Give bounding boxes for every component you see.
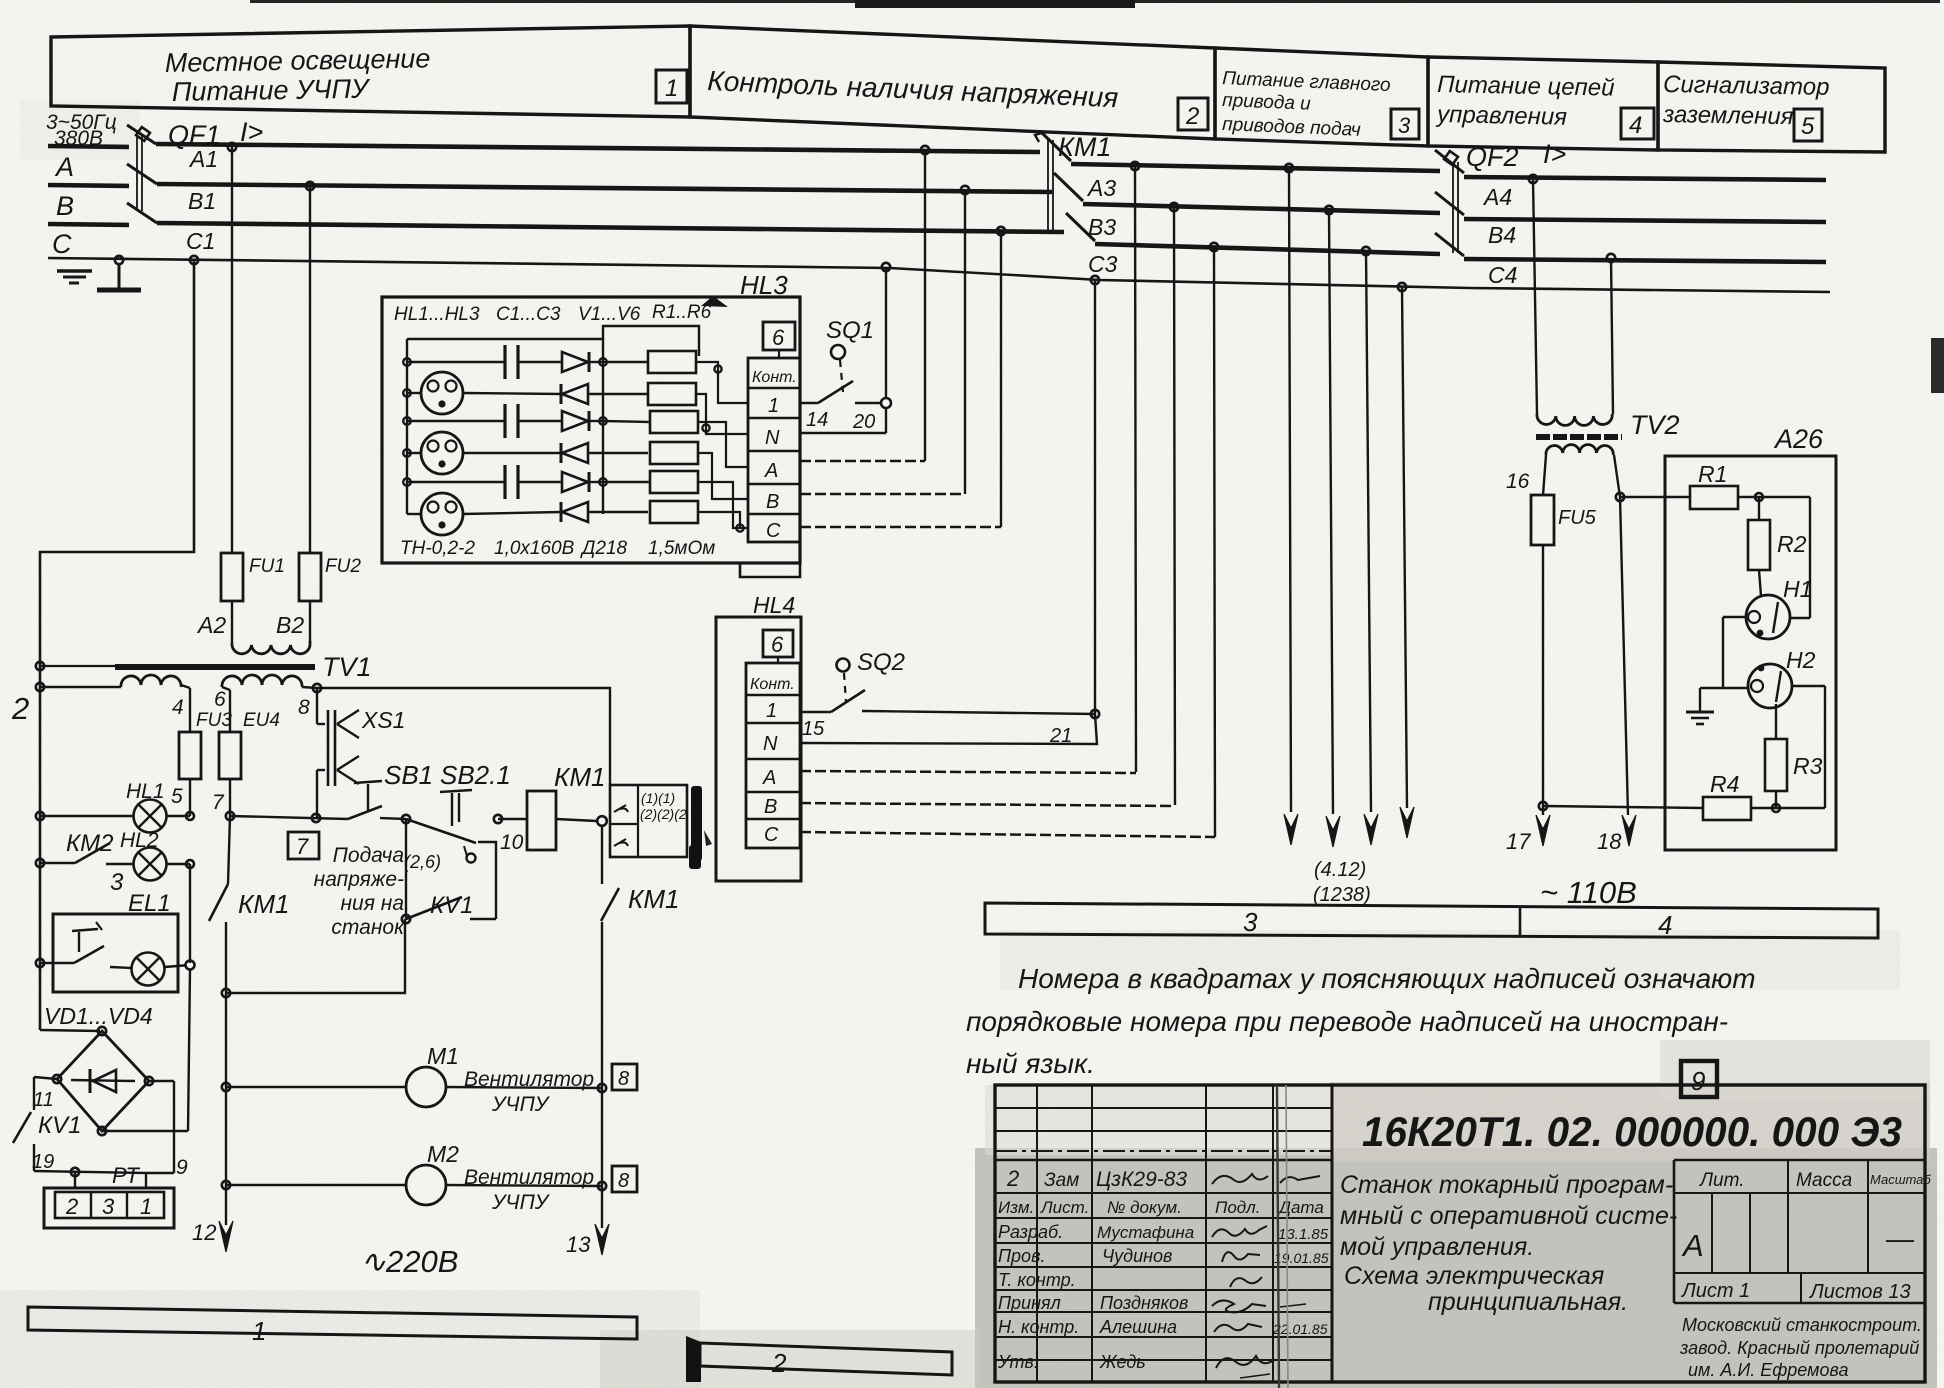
svg-text:Зам: Зам [1044,1170,1079,1191]
svg-text:FU3: FU3 [196,710,232,731]
wire A1 [156,144,1040,172]
arrow 13 [566,1224,609,1257]
svg-text:HL3: HL3 [740,270,788,300]
svg-text:Схема электрическая: Схема электрическая [1344,1262,1604,1290]
resistor R3 [603,411,698,433]
svg-text:Жедь: Жедь [1099,1352,1146,1372]
svg-text:привода и: привода и [1222,90,1312,115]
svg-text:3: 3 [110,869,124,896]
header box 3 Питание главного привода и приводов подач [1215,48,1428,146]
node B1 tap to HL3 pin B [961,186,969,494]
svg-text:ЦзК29-83: ЦзК29-83 [1096,1168,1187,1191]
node PE to left rail [190,256,198,264]
capacitor C1 [407,345,562,379]
svg-text:РТ: РТ [112,1163,140,1188]
svg-text:В3: В3 [1088,214,1116,240]
svg-text:21: 21 [1049,725,1072,747]
HL3 mesh wires to connector [696,362,748,532]
svg-text:Местное освещение: Местное освещение [165,43,431,78]
svg-text:завод. Красный пролетарий: завод. Красный пролетарий [1679,1338,1919,1358]
svg-text:13: 13 [566,1232,591,1257]
label Вентилятор УЧПУ M2 [464,1166,594,1214]
svg-text:N: N [763,733,778,755]
wire drop 4 to power section arrow [1398,283,1414,838]
svg-text:C1: C1 [186,228,215,254]
svg-text:1,0х160В: 1,0х160В [494,538,575,559]
title row Разраб [998,1222,1329,1243]
fuse FU5 [1531,455,1597,806]
diode V6 [561,502,648,522]
wire H1 right to R1 rail [1790,497,1810,618]
svg-text:Масштаб: Масштаб [1870,1172,1931,1187]
diode V4 [561,443,648,463]
HL3 top wire [407,326,699,356]
lamp row wires [407,393,562,514]
EL1 switch [40,922,104,963]
wire phase C incoming [48,224,129,225]
wire C1 [157,223,1064,254]
svg-text:8: 8 [618,1170,629,1192]
contactor KM1 main contacts [1035,132,1111,241]
svg-text:6: 6 [771,632,784,657]
svg-text:(4.12): (4.12) [1314,859,1366,881]
svg-text:QF2: QF2 [1466,142,1519,172]
svg-text:ния на: ния на [340,892,404,915]
wire HL4 pin B to B3 [800,803,1175,806]
svg-text:22.01.85: 22.01.85 [1272,1321,1328,1337]
svg-text:Д218: Д218 [580,538,628,559]
wire A4 [1464,177,1826,210]
svg-text:А4: А4 [1482,184,1512,210]
resistor R4 of A26 [1543,771,1825,820]
wire B4 [1464,219,1826,248]
title row Утв [997,1352,1274,1378]
svg-text:2: 2 [1185,103,1199,130]
label square 8 M2 [612,1166,637,1192]
svg-text:7: 7 [296,834,309,859]
wire phase B incoming [48,185,129,186]
svg-text:А: А [762,767,776,789]
HL3 connector outline protrusion [740,563,800,577]
scan top edge artifact [250,0,1944,393]
svg-text:КV1: КV1 [430,892,474,919]
title row Н контр [998,1317,1328,1337]
svg-text:Подача: Подача [333,844,404,867]
lamp H1 neon [1746,576,1812,639]
svg-text:A1: A1 [188,146,218,172]
svg-text:Лит.: Лит. [1698,1170,1745,1191]
svg-text:(1)(1): (1)(1) [641,790,675,806]
wire SB2.1 to coil [494,815,527,823]
svg-text:КМ1: КМ1 [1058,132,1111,162]
transformer TV2 secondary [1506,445,1613,493]
svg-text:2: 2 [65,1194,78,1219]
svg-text:Поздняков: Поздняков [1100,1293,1188,1313]
svg-text:принципиальная.: принципиальная. [1428,1288,1628,1316]
svg-text:Разраб.: Разраб. [998,1222,1063,1242]
transformer TV1 primary winding [232,641,310,654]
title doc number [1362,1108,1902,1155]
label square 7 [288,832,319,859]
HL4 connector table [746,663,800,848]
svg-text:2: 2 [11,691,29,726]
transformer TV1 core [115,652,372,682]
svg-text:В2: В2 [276,612,304,638]
wire SB1 to KV1 node [380,815,410,823]
header box 2 Контроль наличия напряжения [690,26,1215,139]
svg-text:C: C [52,229,72,259]
earth symbol A26 [1686,712,1714,724]
svg-text:SB1: SB1 [384,760,433,790]
wire A3 [1071,164,1440,201]
wire HL4 pin C to C3 [800,832,1215,837]
svg-text:Питание цепей: Питание цепей [1437,71,1615,102]
svg-text:Листов 13: Листов 13 [1808,1281,1911,1303]
svg-text:Лист.: Лист. [1040,1198,1089,1217]
push button SB1 [348,760,433,819]
svg-text:Мустафина: Мустафина [1097,1223,1194,1242]
HL3 diode output bus [599,339,607,514]
header label square 4 [1621,108,1654,139]
svg-text:SQ2: SQ2 [857,649,905,676]
note text about square numbers [966,963,1756,1079]
wire HL3 pin N to SQ1 post [800,432,886,434]
lamp H2 neon [1748,647,1816,708]
phase labels A B C [52,152,74,259]
svg-text:Вентилятор: Вентилятор [464,1166,594,1189]
title description [1340,1171,1677,1316]
svg-text:С1...С3: С1...С3 [496,304,561,325]
motor M1 fan [222,1043,606,1107]
svg-text:~ 110В: ~ 110В [1540,875,1637,910]
node C3 tap to HL4 pin C [1210,243,1218,837]
svg-text:ХS1: ХS1 [361,707,405,733]
svg-text:им. А.И. Ефремова: им. А.И. Ефремова [1688,1360,1848,1380]
svg-text:А: А [764,460,778,482]
paper fold line [1277,1085,1288,1388]
svg-text:мный с оперативной систе-: мный с оперативной систе- [1340,1202,1677,1230]
svg-text:19: 19 [32,1151,54,1173]
svg-text:8: 8 [298,696,310,719]
lamp HL2 [106,829,194,896]
wire TV1 terminal 8 node [302,684,610,785]
svg-text:1: 1 [665,75,678,102]
svg-text:ТV2: ТV2 [1630,410,1680,440]
block A26 box [1665,424,1836,850]
svg-text:FU5: FU5 [1558,507,1597,529]
svg-text:Н2: Н2 [1786,647,1816,673]
svg-text:С3: С3 [1088,251,1118,277]
svg-text:HL1...HL3: HL1...HL3 [394,304,480,325]
label 220V [360,1244,458,1279]
motor M2 fan [222,1141,606,1205]
svg-text:Дата: Дата [1277,1198,1324,1217]
ground post stub [97,256,141,290]
contact KM2 [40,830,113,863]
svg-text:R2: R2 [1777,531,1807,557]
svg-text:3: 3 [102,1194,115,1219]
fuse FU4 [219,687,280,816]
svg-text:N: N [765,427,780,449]
label (4.12) (1238) [1313,859,1371,906]
svg-text:В: В [764,796,777,818]
svg-text:Питание УЧПУ: Питание УЧПУ [172,74,372,107]
resistor R5 [603,471,698,493]
transformer TV2 primary [1529,175,1615,426]
resistor R2 [648,383,696,405]
svg-text:М2: М2 [427,1141,459,1167]
label 7 [212,791,225,814]
svg-text:9: 9 [176,1156,188,1179]
HL3 left feed bus [403,339,411,514]
luminaire EL1 box [53,890,178,992]
node A3 tap to HL4 pin A [1131,162,1139,772]
svg-text:1: 1 [768,395,779,417]
svg-text:11: 11 [33,1089,54,1111]
svg-text:А2: А2 [196,612,226,638]
supply labels 3~50Гц 380В [46,111,117,150]
svg-text:—: — [1885,1223,1915,1254]
capacitor C2 [407,404,562,438]
svg-text:ный язык.: ный язык. [966,1048,1095,1079]
title revision row handwritten [1006,1166,1320,1191]
svg-text:4: 4 [1629,112,1642,139]
svg-text:М1: М1 [427,1043,459,1069]
wire H2 left and ground [1700,688,1748,712]
svg-text:(2)(2)(2: (2)(2)(2 [640,806,687,822]
svg-text:Московский станкостроит.: Московский станкостроит. [1682,1315,1922,1335]
svg-text:17: 17 [1506,829,1531,854]
svg-text:9: 9 [1691,1066,1705,1096]
header label square 3 [1391,109,1419,139]
svg-text:Сигнализатор: Сигнализатор [1663,71,1830,101]
thermal contact PT box [610,785,687,857]
numbered bar 3 and 4 [985,903,1878,940]
EL1 lamp [110,953,195,986]
svg-text:А26: А26 [1773,424,1824,454]
diode V5 [562,472,603,492]
svg-text:13.1.85: 13.1.85 [1278,1226,1329,1243]
svg-text:ЕL1: ЕL1 [128,890,171,917]
svg-text:Лист 1: Лист 1 [1680,1280,1750,1302]
svg-text:3: 3 [1243,907,1258,937]
connector XS1 [317,688,405,818]
wire 21 SQ2 to PE drop [800,710,1099,747]
svg-text:4: 4 [172,696,184,719]
wire bridge right to node 9 [145,1077,188,1188]
break button SB2.1 [404,760,524,872]
header box 4 Питание цепей управления [1428,57,1658,150]
HL3 connector table [748,358,800,542]
svg-text:А: А [1681,1228,1704,1263]
earth symbol left [57,271,92,283]
lamp HL2 neon [421,432,463,474]
title row Т контр [998,1270,1262,1290]
wire HL4 pin A to A3 [800,771,1136,773]
svg-text:R4: R4 [1710,771,1739,797]
wire rail to bridge top [40,1027,106,1035]
wire C3 [1088,244,1440,277]
transformer TV1 secondary II [214,675,310,719]
svg-text:ТV1: ТV1 [322,652,372,682]
transformer TV1 secondary I [40,675,184,719]
svg-text:16: 16 [1506,470,1530,493]
wire 17 drop [1506,802,1550,854]
wire 18 drop [1597,455,1636,854]
svg-text:КМ1: КМ1 [628,884,679,914]
label Вентилятор УЧПУ M1 [464,1068,594,1116]
contact KM1 aux right [601,826,679,1228]
svg-text:УЧПУ: УЧПУ [491,1093,551,1116]
title row Пров [998,1246,1329,1266]
title right grid [1674,1160,1931,1303]
svg-text:5: 5 [1801,113,1815,140]
diode V1 [562,352,603,372]
svg-text:Изм.: Изм. [998,1198,1034,1217]
svg-text:Принял: Принял [998,1293,1061,1313]
svg-text:7: 7 [212,791,225,814]
svg-text:С: С [766,520,781,542]
svg-text:19.01.85: 19.01.85 [1274,1250,1329,1266]
svg-text:12: 12 [192,1220,216,1245]
label square 9 [1681,1061,1717,1097]
svg-text:FU1: FU1 [249,556,285,577]
header box 5 Сигнализатор заземления [1658,62,1885,152]
svg-text:УЧПУ: УЧПУ [491,1191,551,1214]
svg-text:С4: С4 [1488,262,1517,288]
arrow 12 [192,1220,233,1252]
svg-text:ТН-0,2-2: ТН-0,2-2 [400,538,475,559]
circuit breaker QF1 [127,117,263,223]
svg-text:Подл.: Подл. [1215,1198,1260,1217]
thermal relay PT terminal box [44,1163,174,1228]
svg-text:I>: I> [1543,139,1566,169]
fuse FU3 [179,685,232,816]
contact KM1 aux left [209,816,289,1225]
rectifier bridge VD1-VD4 [57,1031,149,1131]
svg-text:Утв.: Утв. [997,1352,1039,1372]
svg-text:3: 3 [1398,113,1411,138]
svg-text:14: 14 [806,409,828,431]
fuse FU1 [221,553,285,643]
svg-text:порядковые номера при пере: порядковые номера при переводе надписей … [966,1006,1728,1037]
svg-text:станок: станок [331,916,405,939]
svg-text:6: 6 [772,325,785,350]
svg-text:15: 15 [802,718,825,740]
label HL3 [701,270,788,307]
svg-text:заземления: заземления [1662,101,1794,130]
svg-text:Н. контр.: Н. контр. [998,1317,1079,1337]
wire phase A incoming [48,146,129,147]
svg-text:КV1: КV1 [38,1112,82,1139]
title factory [1679,1315,1922,1380]
HL4 label square 6 [763,630,793,663]
wire B1 [157,184,1052,214]
svg-text:Н1: Н1 [1783,576,1812,602]
diode V2 [561,384,648,404]
svg-text:B1: B1 [188,188,216,214]
wire drop 3 to power section arrow [1362,247,1378,845]
svg-text:VD1...VD4: VD1...VD4 [44,1003,153,1029]
svg-text:V1...V6: V1...V6 [578,304,641,325]
resistor R1 of A26 [1620,461,1810,509]
wire C4 [1464,259,1826,288]
svg-text:1,5мОм: 1,5мОм [648,538,715,559]
label A2 B2 [196,612,304,638]
block HL4 box [716,592,801,881]
svg-text:HL1: HL1 [126,780,165,803]
node PE tap to SQ1 [882,263,890,433]
svg-text:Номера в квадратах у поясн: Номера в квадратах у поясняющих надписей… [1018,963,1756,994]
node C1 tap to HL3 pin C [997,227,1005,527]
wire HL3 pin A to A1 [800,460,925,463]
wire rail to core [40,665,115,667]
svg-text:напряже-: напряже- [314,868,404,891]
wire HL3 pin B to B1 [800,493,965,496]
svg-text:FU2: FU2 [325,556,361,577]
svg-text:Пров.: Пров. [998,1246,1045,1266]
node B1 tap to FU2 [306,182,314,553]
header label square 5 [1794,109,1822,141]
svg-text:20: 20 [852,411,875,433]
svg-text:18: 18 [1597,829,1622,854]
wire KV1 to PT [34,1168,146,1188]
HL3 connector label square 6 [763,322,795,358]
transformer TV2 core [1536,410,1680,440]
svg-text:A: A [54,152,74,182]
note Подача напряжения на станок [314,844,405,939]
svg-text:В: В [766,491,779,513]
coil KM1 [527,762,607,850]
wire bridge left to KV1 [33,1075,61,1111]
svg-text:HL4: HL4 [753,592,795,618]
resistor R3 of A26 [1765,704,1823,808]
svg-text:R1: R1 [1698,461,1727,487]
fuse FU2 [299,553,361,643]
svg-text:1: 1 [252,1316,266,1346]
svg-text:8: 8 [618,1068,629,1090]
svg-text:2: 2 [771,1348,787,1378]
svg-text:Т. контр.: Т. контр. [998,1270,1076,1290]
capacitor C3 [407,465,562,499]
label node 2 [11,691,29,726]
svg-text:НL2: НL2 [120,829,159,852]
svg-text:SQ1: SQ1 [826,317,874,344]
svg-text:мой управления.: мой управления. [1340,1233,1534,1261]
svg-text:(2,6): (2,6) [404,852,441,872]
svg-text:КМ1: КМ1 [554,762,605,792]
wire PE ground bus [48,258,1830,292]
svg-text:∿220В: ∿220В [360,1244,458,1279]
wire H2 right rail [1792,686,1825,808]
block HL3 earth indicator box [382,297,800,563]
contact KV1 self hold [402,819,496,923]
svg-text:4: 4 [1658,910,1672,940]
wire HL3 pin C to C1 [800,526,1001,529]
resistor R6 [650,501,698,523]
resistor R2 of A26 [1748,497,1807,596]
wire drop 2 to power section arrow [1325,206,1340,847]
node B3 tap to HL4 pin B [1170,203,1178,805]
resistor R1 [603,351,696,373]
wire left rail node 2 [36,260,194,1030]
diode V3 [562,411,603,431]
node A1 tap to FU1 [228,143,236,553]
svg-text:А3: А3 [1086,175,1116,201]
svg-text:16К20Т1. 02. 000000. 000 Э3: 16К20Т1. 02. 000000. 000 Э3 [1362,1108,1902,1155]
svg-text:№ докум.: № докум. [1107,1198,1182,1217]
lamp HL1 [40,780,194,833]
